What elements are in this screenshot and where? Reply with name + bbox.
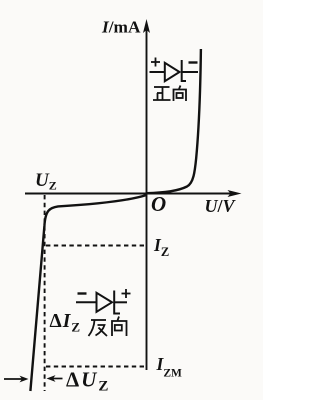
D2 minus sign bbox=[78, 292, 87, 294]
svg-text:I/mA: I/mA bbox=[101, 18, 141, 37]
svg-text:ΔUZ: ΔUZ bbox=[66, 368, 110, 395]
vertical axis I bbox=[146, 30, 148, 370]
horizontal axis arrowhead bbox=[228, 190, 242, 197]
svg-text:UZ: UZ bbox=[35, 170, 57, 193]
D1 anode lead wire bbox=[150, 71, 165, 73]
D1 triangle bbox=[165, 63, 180, 81]
D2 cathode lead wire bbox=[115, 301, 127, 303]
D1 minus sign bbox=[189, 61, 198, 63]
D1 cathode bar bbox=[182, 60, 186, 81]
text 反向 (reverse) hanzi 向 bbox=[112, 317, 127, 337]
svg-text:IZ: IZ bbox=[153, 235, 169, 259]
dashed vertical line at Uz bbox=[44, 195, 46, 391]
diode curve reverse branch bbox=[30, 195, 146, 391]
dashed horizontal line Izm bbox=[46, 366, 146, 368]
diode curve forward branch bbox=[147, 49, 201, 193]
D1 cathode lead wire bbox=[183, 71, 199, 73]
text 正向 (forward) hanzi 向 bbox=[174, 86, 187, 102]
svg-text:ΔIZ: ΔIZ bbox=[50, 311, 82, 335]
vertical axis arrowhead bbox=[143, 19, 150, 33]
dashed horizontal line Iz bbox=[46, 245, 146, 247]
delta Uz left measure arrow bbox=[4, 376, 29, 383]
delta Uz right measure arrow bbox=[47, 375, 63, 382]
D2 anode lead wire bbox=[76, 301, 96, 303]
D2 cathode bar bbox=[114, 291, 120, 314]
D1 plus sign bbox=[151, 58, 160, 67]
forward diode D1 symbol bbox=[150, 60, 199, 81]
text 反向 (reverse) hanzi 反 bbox=[89, 320, 108, 336]
svg-text:IZM: IZM bbox=[156, 354, 182, 380]
D2 triangle bbox=[97, 293, 113, 312]
horizontal axis U bbox=[25, 193, 232, 195]
svg-text:O: O bbox=[151, 192, 166, 216]
D2 plus sign bbox=[122, 289, 131, 298]
svg-text:U/V: U/V bbox=[205, 196, 237, 216]
text 正向 (forward) hanzi 正 bbox=[153, 87, 171, 100]
reverse diode D2 symbol bbox=[76, 291, 127, 314]
